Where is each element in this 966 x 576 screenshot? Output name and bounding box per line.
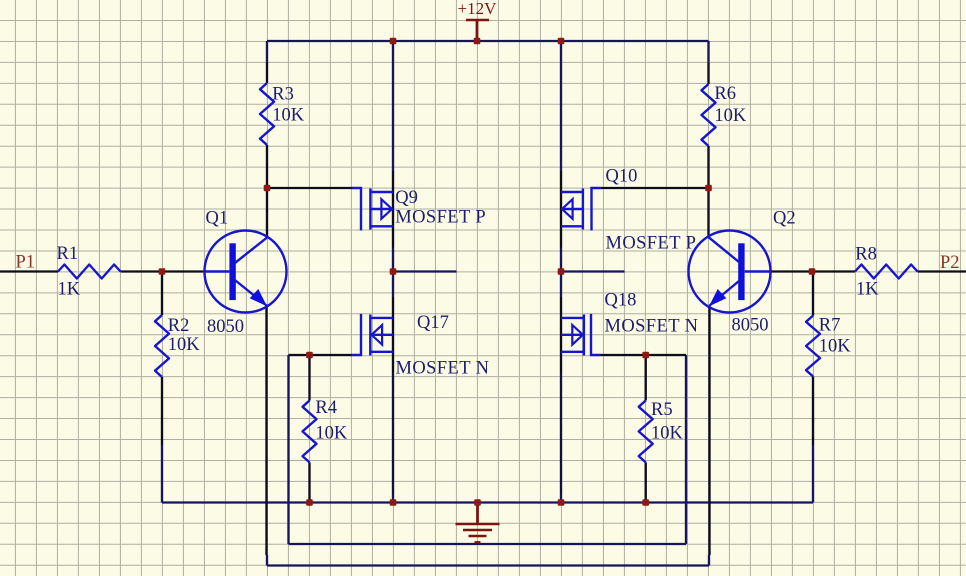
svg-text:10K: 10K xyxy=(168,335,201,355)
svg-text:MOSFET N: MOSFET N xyxy=(396,359,490,379)
svg-text:MOSFET N: MOSFET N xyxy=(605,316,699,336)
svg-text:R2: R2 xyxy=(168,316,190,336)
svg-text:P2: P2 xyxy=(940,253,960,273)
svg-text:1K: 1K xyxy=(58,280,81,300)
svg-text:+12V: +12V xyxy=(458,0,498,18)
svg-text:R7: R7 xyxy=(819,316,841,336)
svg-text:R8: R8 xyxy=(855,245,877,265)
svg-text:10K: 10K xyxy=(315,423,348,443)
svg-text:P1: P1 xyxy=(16,253,36,273)
svg-text:Q17: Q17 xyxy=(417,313,449,333)
svg-text:R3: R3 xyxy=(272,84,294,104)
svg-text:MOSFET P: MOSFET P xyxy=(395,208,486,228)
svg-text:Q18: Q18 xyxy=(605,290,637,310)
svg-text:8050: 8050 xyxy=(207,317,244,337)
svg-text:Q2: Q2 xyxy=(773,209,796,229)
svg-text:Q9: Q9 xyxy=(395,188,418,208)
svg-text:10K: 10K xyxy=(651,424,684,444)
svg-text:R5: R5 xyxy=(651,400,673,420)
svg-text:R4: R4 xyxy=(315,398,337,418)
svg-text:1K: 1K xyxy=(856,279,879,299)
svg-text:10K: 10K xyxy=(272,106,305,126)
svg-text:Q10: Q10 xyxy=(606,167,638,187)
svg-text:8050: 8050 xyxy=(732,316,769,336)
svg-text:R6: R6 xyxy=(714,84,736,104)
svg-text:10K: 10K xyxy=(714,106,747,126)
svg-text:MOSFET P: MOSFET P xyxy=(606,233,697,253)
svg-text:10K: 10K xyxy=(819,337,852,357)
svg-text:Q1: Q1 xyxy=(206,208,229,228)
svg-text:R1: R1 xyxy=(57,244,79,264)
